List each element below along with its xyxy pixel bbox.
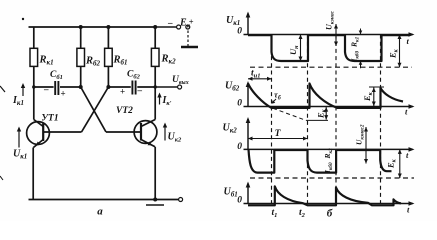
svg-text:T: T (275, 129, 282, 139)
svg-text:t1: t1 (272, 208, 278, 219)
svg-text:+: + (61, 89, 66, 99)
svg-text:Rб2: Rб2 (85, 56, 101, 68)
svg-text:–: – (167, 18, 173, 28)
svg-text:Cб1: Cб1 (50, 70, 63, 81)
svg-text:Rк2: Rк2 (161, 54, 177, 66)
svg-text:УТ1: УТ1 (41, 114, 58, 124)
svg-text:Uкэнас2: Uкэнас2 (355, 124, 366, 145)
svg-text:Uвых: Uвых (172, 75, 189, 86)
svg-text:VT2: VT2 (116, 106, 133, 116)
svg-text:Rк1: Rк1 (350, 36, 361, 48)
svg-text:Eк: Eк (388, 48, 400, 59)
svg-text:Uк1: Uк1 (13, 149, 27, 161)
svg-text:Uк2: Uк2 (223, 123, 238, 135)
svg-text:Uб2: Uб2 (225, 81, 240, 93)
svg-text:0: 0 (237, 27, 242, 37)
svg-text:tи1: tи1 (251, 69, 261, 80)
svg-text:t: t (407, 36, 410, 46)
svg-text:Uб1: Uб1 (224, 187, 238, 199)
svg-text:0: 0 (237, 142, 242, 152)
svg-text:t2: t2 (299, 208, 306, 219)
svg-text:Uкэнас: Uкэнас (325, 10, 336, 30)
svg-text:Iк′: Iк′ (162, 95, 172, 107)
svg-text:Cб2: Cб2 (127, 70, 141, 81)
svg-text:Uк2: Uк2 (168, 132, 183, 144)
svg-text:Eк: Eк (362, 91, 374, 102)
svg-text:t: t (405, 107, 408, 117)
svg-text:t: t (407, 205, 410, 215)
svg-text:Iк1: Iк1 (12, 95, 24, 107)
svg-text:Eк: Eк (386, 158, 398, 169)
svg-text:Rб1: Rб1 (113, 55, 128, 67)
svg-text:Rк1: Rк1 (39, 55, 54, 67)
svg-text:–: – (137, 85, 143, 95)
svg-text:а: а (97, 206, 103, 218)
svg-text:+: + (189, 17, 194, 27)
svg-text:0: 0 (237, 196, 242, 206)
svg-text:0: 0 (237, 99, 242, 109)
svg-text:Uн: Uн (288, 45, 300, 55)
svg-text:–: – (43, 84, 49, 94)
svg-text:Uк1: Uк1 (226, 15, 240, 27)
svg-text:б: б (327, 208, 333, 220)
svg-text:+: + (120, 87, 125, 97)
